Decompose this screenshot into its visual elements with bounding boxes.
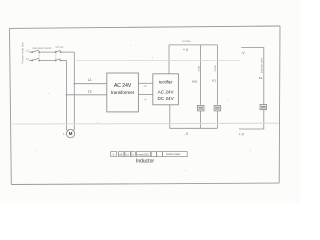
label CP circuit [56, 46, 64, 49]
svg-text:solenoid valve: solenoid valve [260, 57, 263, 73]
wire L2 tap to transformer [66, 94, 106, 96]
wire motor lead left [66, 130, 68, 131]
wire K1 branch lower [216, 111, 218, 128]
title strip cell 3 [125, 152, 130, 157]
border frame left [10, 28, 12, 184]
label KA1 [192, 79, 198, 83]
scan streak lower [12, 122, 279, 125]
border frame bottom [11, 183, 279, 184]
svg-text:K2: K2 [259, 76, 263, 80]
label + V [183, 48, 189, 52]
wire L1 feed segments [29, 51, 74, 53]
label +V (small, top link) [143, 84, 147, 88]
border frame top [10, 26, 281, 28]
breaker CP link [55, 51, 57, 60]
svg-text:+V: +V [143, 84, 147, 88]
svg-text:DC 24V: DC 24V [158, 96, 175, 101]
label Inductor [136, 158, 154, 164]
label L1 (feed) [26, 48, 30, 52]
svg-text:-V: -V [144, 98, 147, 102]
border frame right [278, 26, 281, 183]
wire -V bus from rectifier [170, 105, 218, 129]
wire motor lead right [73, 130, 75, 131]
label -V (right branch top) [241, 51, 245, 55]
wire right branch bottom [239, 110, 264, 129]
node L2 tap [66, 94, 67, 95]
svg-text:motor: motor [214, 65, 217, 72]
transformer T1 box [107, 73, 139, 112]
breaker CP pole 2 (L2) [55, 59, 61, 61]
wire L1 tap to transformer [74, 83, 107, 85]
disconnect switch pole 1 (L1) [32, 50, 40, 53]
svg-text:+ V: + V [183, 48, 189, 52]
svg-text:Power feed line: Power feed line [20, 42, 24, 64]
wire L2 drop (bus) [65, 60, 67, 129]
scan speckles [35, 45, 251, 171]
svg-text:Inductor: Inductor [136, 158, 154, 164]
scan streak upper [76, 59, 240, 61]
label 3~ [63, 132, 66, 136]
solenoid coil K2 [260, 105, 267, 110]
wire transformer to rectifier top [138, 82, 152, 84]
title strip cell 7 [157, 152, 163, 157]
label -V (small, bottom link) [144, 98, 147, 102]
label K2 [259, 76, 263, 80]
svg-text:KA1: KA1 [192, 79, 198, 83]
relay coil KA1 [197, 105, 204, 111]
label + V (right branch bottom) [239, 133, 245, 137]
disconnect switch link [38, 51, 40, 60]
label K1 [212, 79, 216, 83]
svg-text:K1: K1 [212, 79, 216, 83]
wire +V rail [169, 44, 217, 46]
title strip cell 1 [111, 152, 117, 157]
svg-text:+V wire: +V wire [182, 39, 192, 43]
title strip cell 2 [118, 152, 124, 157]
label L2 (feed) [26, 57, 30, 61]
wire right branch top [241, 47, 263, 104]
relay coil K1 [214, 105, 221, 111]
label coil (vertical on K1 branch) [214, 65, 217, 72]
title strip cell 4 [131, 152, 135, 157]
rectifier U1 box [153, 74, 179, 105]
title strip cell 6 [151, 152, 156, 157]
svg-text:center power: center power [166, 153, 181, 156]
wire L2 feed segments [29, 59, 66, 61]
label Power feed line (vertical) [20, 42, 24, 64]
disconnect switch pole 2 (L2) [32, 58, 40, 61]
svg-text:rectifier: rectifier [159, 79, 173, 84]
wire KA1 branch lower [200, 111, 202, 128]
label disconnect switch [33, 47, 52, 50]
wire transformer to rectifier bottom [138, 94, 152, 96]
wire rectifier to +V rail [168, 45, 170, 74]
breaker CP pole 1 (L1) [55, 50, 61, 52]
motor M [66, 129, 74, 137]
label - V (bottom left bus) [184, 132, 189, 136]
svg-text:3~: 3~ [63, 132, 66, 136]
label solenoid valve (vertical on K2 branch) [260, 57, 263, 73]
svg-text:L1: L1 [26, 48, 30, 52]
svg-text:x1: x1 [126, 152, 129, 156]
title strip cell 5 [136, 152, 150, 157]
svg-text:L1: L1 [88, 78, 92, 82]
wire KA1 branch upper [200, 45, 202, 105]
svg-text:+va(x25().: +va(x25(). [137, 152, 150, 156]
svg-text:L2: L2 [88, 89, 92, 93]
label +V wire (tiny above rail) [182, 39, 192, 43]
label relay (vertical on KA1 branch) [198, 65, 201, 71]
wire L1 drop (bus) [73, 52, 75, 130]
label L2 [88, 89, 92, 93]
svg-text:disconnect switch: disconnect switch [33, 47, 52, 50]
svg-text:M: M [69, 131, 73, 136]
svg-text:L2: L2 [26, 57, 30, 61]
node L1 tap [74, 83, 75, 84]
svg-text:CP unit: CP unit [56, 46, 64, 49]
title strip cell 8 [163, 152, 188, 157]
label L1 [88, 78, 92, 82]
wire K1 branch upper [216, 45, 218, 105]
svg-text:a0: a0 [119, 152, 123, 156]
svg-text:AC 24V: AC 24V [158, 89, 175, 94]
svg-text:transformer: transformer [111, 90, 135, 95]
svg-text:AC 24V: AC 24V [114, 83, 132, 89]
svg-text:relay: relay [198, 65, 201, 71]
